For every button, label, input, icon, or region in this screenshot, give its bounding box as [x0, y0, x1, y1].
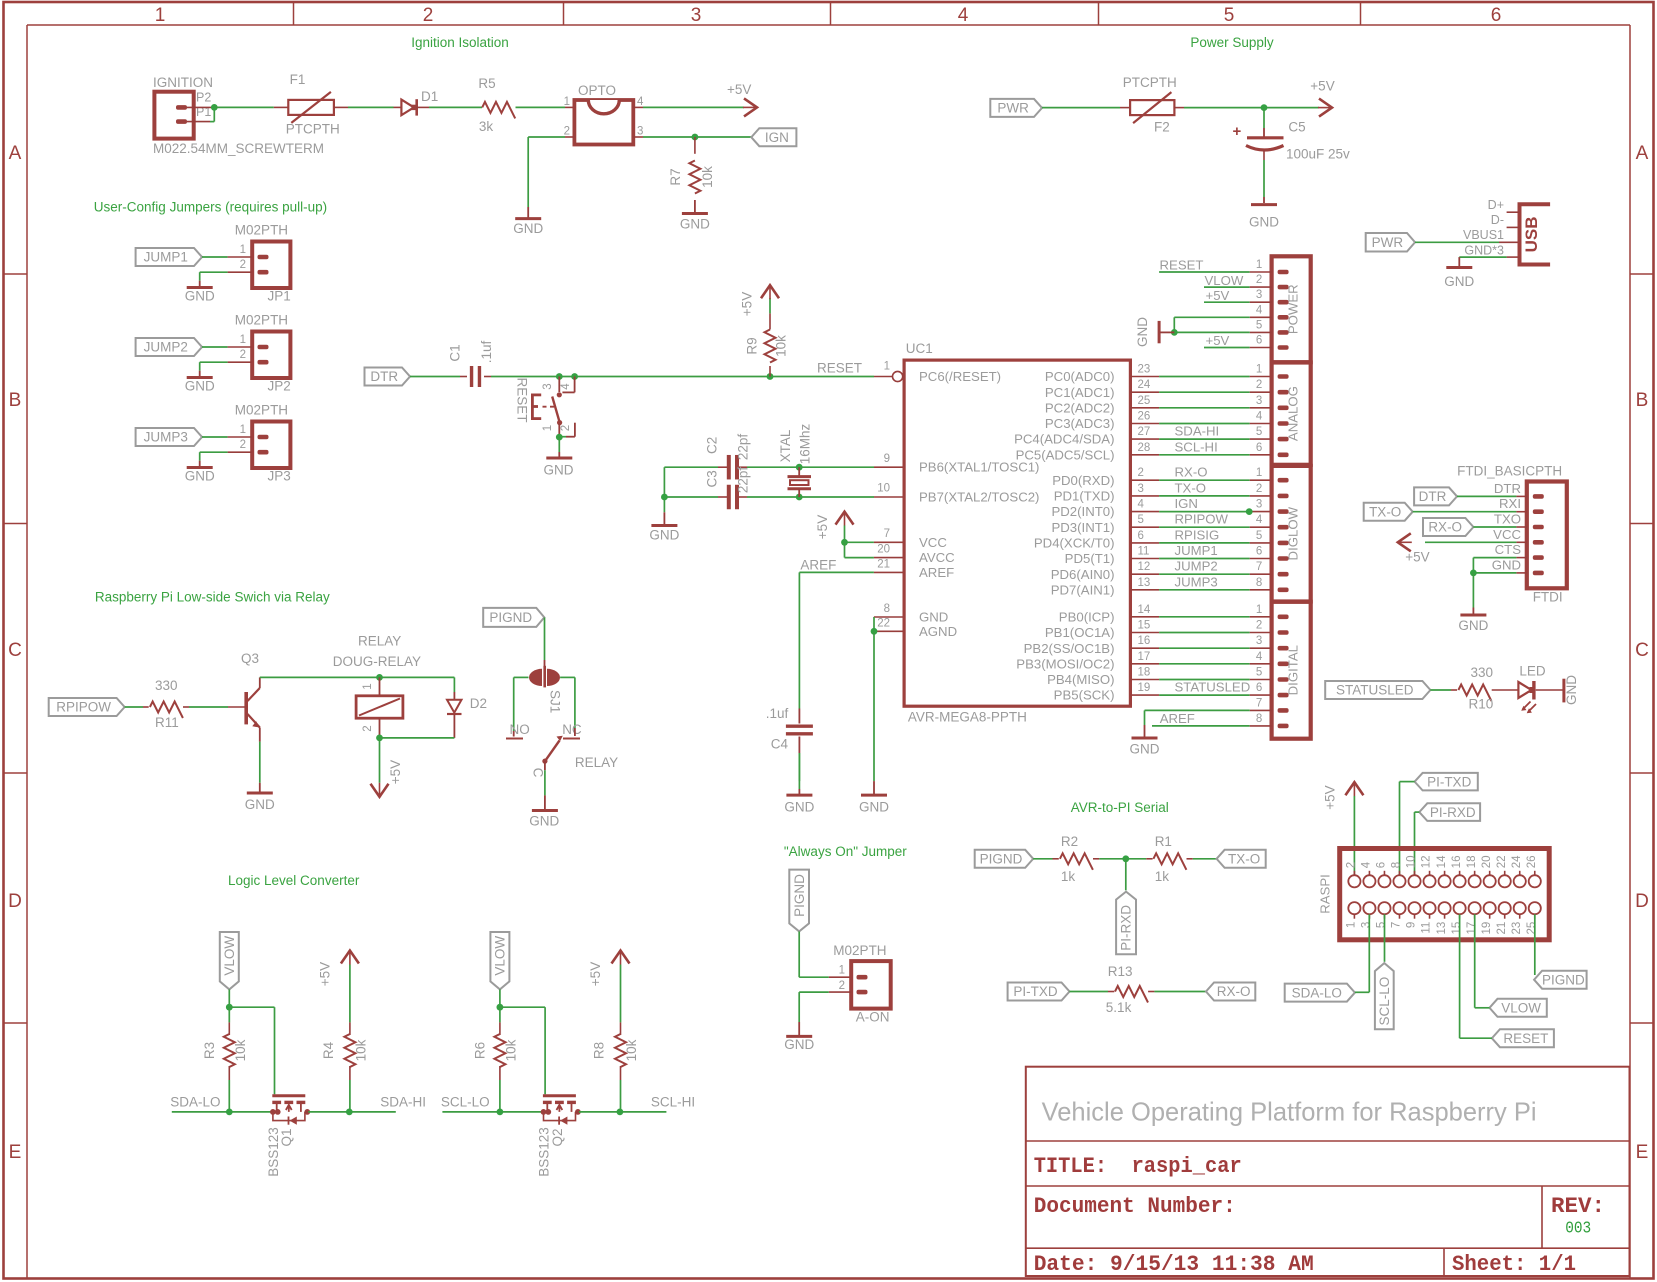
- svg-text:7: 7: [1256, 561, 1262, 573]
- svg-text:2: 2: [560, 425, 572, 431]
- power +5V arrow (raspi): [1323, 782, 1364, 810]
- net stub +5V to POWER 3: [1204, 288, 1272, 303]
- title block heading text: [1042, 1097, 1537, 1127]
- wire PB6 crystal net: [664, 466, 904, 468]
- net label PWR (power supply): [990, 99, 1042, 117]
- LED: [1518, 664, 1562, 714]
- svg-text:REV:: REV:: [1551, 1194, 1605, 1219]
- svg-text:RPIPOW: RPIPOW: [1175, 512, 1229, 527]
- svg-text:22pf: 22pf: [736, 434, 751, 461]
- wire STATUSLED to R10: [1430, 689, 1457, 691]
- svg-text:DTR: DTR: [1494, 481, 1521, 496]
- ground below AGND: [859, 795, 889, 814]
- svg-text:Logic Level Converter: Logic Level Converter: [228, 873, 360, 888]
- RASPI pin 18: [1466, 856, 1481, 888]
- svg-text:GND: GND: [784, 1037, 814, 1052]
- ground below Q3: [245, 793, 275, 812]
- net label RESET (wire): [817, 361, 862, 376]
- svg-text:Vehicle Operating Platform for: Vehicle Operating Platform for Raspberry…: [1042, 1097, 1537, 1127]
- capacitor C2 22pf: [704, 434, 750, 480]
- relay switch arm: [531, 728, 619, 778]
- svg-text:GND: GND: [859, 800, 889, 815]
- ground below switch: [544, 458, 574, 478]
- svg-text:JUMP2: JUMP2: [1175, 559, 1218, 574]
- junction node VCC: [841, 539, 848, 546]
- svg-text:13: 13: [1138, 577, 1151, 589]
- relay contact NO: [506, 722, 530, 739]
- svg-text:AVR-to-PI Serial: AVR-to-PI Serial: [1071, 800, 1169, 815]
- svg-text:VLOW: VLOW: [1205, 273, 1244, 288]
- transistor Q3: [241, 651, 260, 742]
- RASPI pin 7: [1391, 902, 1406, 928]
- RASPI pin 20: [1481, 856, 1496, 888]
- pin PB1(OC1A) 15 wire to DIGITAL 2: [1045, 620, 1272, 641]
- svg-text:A: A: [9, 143, 22, 164]
- wire JP1 pin2 to GND: [200, 272, 253, 287]
- wire PI-TXD to R13: [1070, 991, 1115, 993]
- svg-text:17: 17: [1466, 922, 1478, 935]
- RASPI pin 1: [1346, 902, 1361, 928]
- connector A-ON (M02PTH): [833, 943, 890, 1025]
- svg-text:PB0(ICP): PB0(ICP): [1059, 609, 1115, 624]
- diode D2: [447, 696, 487, 738]
- svg-text:R3: R3: [202, 1042, 217, 1059]
- wire FTDI GND down: [1472, 573, 1474, 614]
- svg-text:5: 5: [1256, 319, 1262, 331]
- svg-text:F2: F2: [1154, 120, 1170, 135]
- title block revision value: [1565, 1220, 1591, 1239]
- svg-text:19: 19: [1138, 682, 1151, 694]
- frame row ticks left and right: [4, 274, 1654, 1023]
- RASPI pin 19: [1481, 902, 1496, 934]
- svg-text:.1uf: .1uf: [766, 706, 789, 721]
- svg-text:PI-TXD: PI-TXD: [1427, 774, 1472, 789]
- junction node POWER GND: [1171, 329, 1178, 336]
- svg-text:5: 5: [1256, 530, 1262, 542]
- svg-text:P2: P2: [196, 91, 211, 105]
- wire VLOW to R3: [228, 989, 230, 1007]
- svg-text:4: 4: [1138, 499, 1145, 511]
- svg-text:21: 21: [877, 559, 890, 571]
- svg-text:PIGND: PIGND: [792, 874, 807, 917]
- pin PB3(MOSI/OC2) 17 wire to DIGITAL 4: [1016, 651, 1271, 672]
- net label PIGND (always-on): [789, 870, 809, 932]
- wire +5V to AVCC pin20: [845, 542, 905, 557]
- svg-text:GND: GND: [1249, 215, 1279, 230]
- svg-text:Ignition Isolation: Ignition Isolation: [411, 35, 509, 50]
- svg-text:M02PTH: M02PTH: [833, 943, 886, 958]
- RASPI pin 8: [1391, 862, 1406, 888]
- wire JP2 pin2 to GND: [200, 362, 253, 377]
- svg-text:SCL-HI: SCL-HI: [1175, 439, 1218, 454]
- wire SJ1 right pad to NC: [560, 677, 575, 728]
- svg-text:4: 4: [1256, 514, 1263, 526]
- wire +5V to VCC pin7: [845, 526, 905, 543]
- wire OPTO pin4 to +5V: [633, 106, 744, 108]
- junction node SCL-LO: [497, 1109, 504, 1116]
- svg-text:+5V: +5V: [740, 292, 755, 316]
- svg-text:25: 25: [1526, 922, 1538, 935]
- wire PI-RXD to RASPI pin10: [1415, 812, 1420, 875]
- svg-text:VLOW: VLOW: [493, 936, 508, 976]
- wire Q3 collector to relay coil: [260, 676, 455, 678]
- svg-text:2: 2: [1346, 862, 1358, 868]
- svg-text:20: 20: [877, 544, 890, 556]
- svg-text:FTDI_BASICPTH: FTDI_BASICPTH: [1457, 464, 1562, 479]
- RASPI pin 5: [1376, 902, 1391, 928]
- svg-text:GND: GND: [185, 288, 215, 303]
- svg-text:3: 3: [1256, 635, 1262, 647]
- pin AREF 21: [877, 559, 954, 580]
- svg-text:+5V: +5V: [588, 962, 603, 986]
- svg-text:+5V: +5V: [1323, 785, 1338, 809]
- svg-text:330: 330: [1471, 665, 1494, 680]
- capacitor C1 .1uf: [448, 340, 495, 387]
- svg-text:B: B: [9, 390, 22, 411]
- title block TITLE row: [1034, 1154, 1242, 1179]
- svg-text:16Mhz: 16Mhz: [798, 423, 813, 464]
- svg-text:GND: GND: [185, 468, 215, 483]
- svg-text:GND: GND: [245, 797, 275, 812]
- wire JUMP2 to JP2 pin1: [202, 346, 252, 348]
- svg-text:R1: R1: [1155, 834, 1172, 849]
- title block date row: [1034, 1252, 1576, 1277]
- RASPI pin 15: [1451, 902, 1466, 934]
- wire FTDI GND pin: [1473, 572, 1526, 574]
- net label TX-O (ftdi): [1364, 503, 1413, 521]
- svg-text:A-ON: A-ON: [856, 1010, 890, 1025]
- wire C1 to RESET net: [491, 376, 892, 378]
- svg-text:SJ1: SJ1: [548, 690, 563, 713]
- svg-text:1: 1: [155, 5, 166, 26]
- section title: Power Supply: [1190, 35, 1274, 50]
- resistor R11 330: [150, 678, 189, 730]
- svg-text:16: 16: [1138, 635, 1151, 647]
- section title: AVR-to-PI Serial: [1071, 800, 1169, 815]
- svg-text:GND: GND: [529, 814, 559, 829]
- junction node IGN DIGLOW: [1246, 508, 1253, 515]
- net label PI-TXD (serial): [1008, 983, 1070, 1001]
- svg-text:GND: GND: [649, 528, 679, 543]
- wire R1 to TX-O: [1193, 858, 1217, 860]
- svg-text:8: 8: [884, 603, 890, 615]
- svg-text:Q2: Q2: [550, 1128, 565, 1146]
- svg-text:+5V: +5V: [1206, 288, 1230, 303]
- power +5V arrow (VCC): [815, 512, 854, 540]
- wire F2 to +5V: [1184, 107, 1319, 109]
- title block border: [1026, 1067, 1630, 1276]
- svg-text:JUMP1: JUMP1: [1175, 543, 1218, 558]
- svg-text:RASPI: RASPI: [1317, 874, 1332, 914]
- connector FTDI_BASICPTH: [1457, 464, 1567, 605]
- resistor R10 330: [1458, 665, 1518, 711]
- svg-text:DTR: DTR: [1419, 489, 1447, 504]
- svg-text:RX-O: RX-O: [1217, 984, 1251, 999]
- pin PB7 10: [877, 483, 1039, 505]
- svg-text:1: 1: [1256, 364, 1262, 376]
- svg-text:JP2: JP2: [268, 378, 291, 393]
- resistor R6 10k: [472, 1007, 518, 1112]
- svg-text:E: E: [1636, 1142, 1649, 1163]
- pin PD3(INT1) 5 wire to DIGLOW 4: [1051, 512, 1271, 535]
- RASPI pin 11: [1421, 902, 1436, 934]
- svg-text:18: 18: [1466, 856, 1478, 869]
- svg-text:C1: C1: [448, 344, 463, 361]
- pin PB6 9: [884, 453, 1040, 475]
- svg-text:2: 2: [1256, 483, 1262, 495]
- svg-text:SCL-LO: SCL-LO: [1377, 977, 1392, 1026]
- svg-text:JUMP2: JUMP2: [144, 340, 188, 355]
- svg-text:22: 22: [877, 618, 890, 630]
- net label JUMP1: [136, 248, 202, 266]
- net label RESET (raspi): [1492, 1029, 1554, 1047]
- pin PB4(MISO) 18 wire to DIGITAL 5: [1047, 667, 1272, 688]
- svg-text:8: 8: [1256, 577, 1262, 589]
- junction node AGND: [871, 628, 878, 635]
- wire POWER 4 to GND: [1174, 317, 1271, 332]
- svg-text:PC0(ADC0): PC0(ADC0): [1045, 369, 1115, 384]
- wire FTDI CTS to GND net: [1473, 558, 1526, 573]
- net label SDA-LO (raspi): [1285, 984, 1355, 1002]
- svg-text:4: 4: [637, 96, 644, 108]
- pin PD7(AIN1) 13 wire to DIGLOW 8: [1051, 574, 1272, 597]
- ground LED (rotated): [1564, 675, 1579, 705]
- svg-text:7: 7: [1256, 697, 1262, 709]
- wire SCL-LO row: [442, 1111, 546, 1113]
- RASPI pin 17: [1466, 902, 1481, 934]
- pin PC1(ADC1) 24 wire to ANALOG 2: [1045, 379, 1272, 400]
- svg-text:3: 3: [637, 126, 643, 138]
- svg-text:1: 1: [839, 965, 845, 977]
- junction node FTDI GND: [1470, 570, 1477, 577]
- svg-text:PTCPTH: PTCPTH: [286, 122, 340, 137]
- svg-text:Raspberry Pi Low-side Swich vi: Raspberry Pi Low-side Swich via Relay: [95, 589, 330, 604]
- net label SCL-HI: [651, 1094, 695, 1109]
- wire PIGND to A-ON pin1: [799, 932, 851, 978]
- svg-text:TX-O: TX-O: [1228, 852, 1260, 867]
- svg-text:IGN: IGN: [765, 130, 789, 145]
- frame column ticks top: [294, 2, 1361, 25]
- connector DIGITAL: [1256, 602, 1311, 739]
- svg-text:C: C: [8, 640, 22, 661]
- svg-text:R4: R4: [321, 1041, 336, 1059]
- svg-text:+: +: [1233, 123, 1242, 140]
- svg-text:C5: C5: [1288, 120, 1305, 135]
- svg-text:2: 2: [240, 349, 246, 361]
- svg-text:6: 6: [1138, 530, 1144, 542]
- pin VCC 7: [884, 528, 948, 550]
- ground below R7: [680, 214, 710, 232]
- pin AVCC 20: [877, 544, 955, 566]
- wire PIGND to RASPI pin25: [1534, 914, 1536, 975]
- ground below USB: [1444, 268, 1474, 289]
- svg-text:.1uf: .1uf: [479, 340, 494, 363]
- svg-text:TX-O: TX-O: [1175, 480, 1207, 495]
- svg-text:+5V: +5V: [1310, 79, 1334, 94]
- power +5V arrow (R4): [317, 951, 359, 987]
- svg-text:TXO: TXO: [1494, 512, 1521, 527]
- RASPI pin 24: [1511, 855, 1526, 887]
- svg-text:27: 27: [1138, 426, 1151, 438]
- wire JUMP1 to JP1 pin1: [202, 256, 252, 258]
- svg-text:RX-O: RX-O: [1175, 465, 1208, 480]
- svg-text:6: 6: [1256, 335, 1262, 347]
- svg-text:VCC: VCC: [1493, 527, 1521, 542]
- pin PC6(/RESET) 1: [884, 361, 1001, 385]
- svg-text:PC5(ADC5/SCL): PC5(ADC5/SCL): [1016, 447, 1115, 462]
- resistor R13 5.1k: [1106, 964, 1155, 1015]
- svg-text:10k: 10k: [624, 1039, 639, 1061]
- junction node C3 left: [661, 494, 668, 501]
- net label DTR (ftdi): [1414, 487, 1457, 505]
- svg-text:4: 4: [1256, 304, 1263, 316]
- svg-text:PC6(/RESET): PC6(/RESET): [919, 369, 1001, 384]
- resistor R5 3k: [478, 76, 515, 134]
- svg-text:R6: R6: [472, 1042, 487, 1059]
- svg-text:+5V: +5V: [1405, 550, 1429, 565]
- svg-text:1: 1: [1256, 259, 1262, 271]
- svg-text:19: 19: [1481, 922, 1493, 935]
- capacitor C4 .1uf: [766, 706, 813, 781]
- svg-text:Document Number:: Document Number:: [1034, 1194, 1236, 1219]
- ground below JP1: [185, 288, 215, 304]
- resistor R1 1k: [1146, 834, 1193, 884]
- svg-text:+5V: +5V: [317, 962, 332, 986]
- net label RX-O (serial): [1206, 983, 1255, 1001]
- svg-text:PB7(XTAL2/TOSC2): PB7(XTAL2/TOSC2): [919, 490, 1039, 505]
- svg-text:6: 6: [1491, 5, 1502, 26]
- RASPI pin 4: [1361, 861, 1376, 887]
- svg-text:23: 23: [1511, 922, 1523, 935]
- RASPI pin 25: [1526, 902, 1541, 934]
- svg-text:+5V: +5V: [815, 515, 830, 539]
- net label SCL-LO (raspi): [1375, 963, 1394, 1029]
- wire F1 to D1: [348, 106, 394, 108]
- svg-text:AREF: AREF: [919, 565, 954, 580]
- svg-text:8: 8: [1256, 713, 1262, 725]
- svg-text:VLOW: VLOW: [1501, 1001, 1541, 1016]
- svg-text:2: 2: [362, 725, 374, 731]
- svg-text:100uF 25v: 100uF 25v: [1286, 146, 1350, 161]
- svg-text:11: 11: [1421, 922, 1433, 934]
- svg-text:330: 330: [155, 678, 178, 693]
- svg-text:PD5(T1): PD5(T1): [1065, 551, 1115, 566]
- svg-text:GND: GND: [1458, 618, 1488, 633]
- svg-text:14: 14: [1436, 855, 1448, 868]
- net stub +5V to POWER 6: [1204, 333, 1272, 348]
- section title: User-Config Jumpers: [94, 199, 327, 214]
- svg-text:PIGND: PIGND: [1542, 972, 1585, 987]
- svg-text:PB3(MOSI/OC2): PB3(MOSI/OC2): [1016, 656, 1114, 671]
- RASPI pin 23: [1511, 902, 1526, 934]
- svg-text:GND: GND: [919, 610, 948, 625]
- svg-text:RPIPOW: RPIPOW: [56, 700, 111, 715]
- junction node coil top: [376, 674, 383, 681]
- net label VLOW (Q2): [490, 932, 509, 989]
- junction node SCL-HI: [617, 1109, 624, 1116]
- RASPI pin 22: [1496, 856, 1511, 888]
- svg-text:23: 23: [1138, 364, 1151, 376]
- section title: Always On Jumper: [784, 844, 907, 859]
- svg-text:JUMP3: JUMP3: [144, 430, 188, 445]
- net label RPIPOW: [49, 698, 125, 716]
- svg-text:24: 24: [1511, 855, 1523, 868]
- frame column numbers: [155, 5, 1502, 26]
- wire JP3 pin2 to GND: [200, 452, 253, 467]
- svg-text:RESET: RESET: [1503, 1031, 1548, 1046]
- svg-text:1: 1: [564, 96, 570, 108]
- power +5V arrow down (relay): [371, 760, 403, 797]
- svg-text:CTS: CTS: [1495, 542, 1522, 557]
- svg-text:PD3(INT1): PD3(INT1): [1051, 520, 1114, 535]
- svg-text:PD4(XCK/T0): PD4(XCK/T0): [1034, 536, 1115, 551]
- svg-text:5: 5: [1256, 667, 1262, 679]
- resistor R2 1k: [1060, 834, 1099, 884]
- svg-text:R8: R8: [592, 1042, 607, 1059]
- capacitor C3 22pf: [704, 467, 750, 510]
- svg-text:GND: GND: [784, 800, 814, 815]
- pin PC2(ADC2) 25 wire to ANALOG 3: [1045, 395, 1272, 416]
- resistor R7 10k: [668, 137, 715, 213]
- svg-text:SCL-HI: SCL-HI: [651, 1094, 695, 1109]
- svg-text:12: 12: [1421, 856, 1433, 869]
- pin PC4(ADC4/SDA) 27 wire to ANALOG 5: [1014, 424, 1272, 447]
- wire JUMP3 to JP3 pin1: [202, 436, 252, 438]
- svg-text:GND: GND: [185, 378, 215, 393]
- svg-text:PWR: PWR: [1372, 235, 1404, 250]
- svg-text:9: 9: [884, 453, 890, 465]
- junction node ignition: [211, 104, 218, 111]
- svg-text:User-Config Jumpers (requires: User-Config Jumpers (requires pull-up): [94, 199, 327, 214]
- diode D1: [394, 89, 439, 116]
- wire TX-O to FTDI RXI: [1413, 511, 1527, 513]
- wire C2 C3 left leg to GND: [663, 467, 665, 524]
- svg-text:C2: C2: [704, 437, 719, 454]
- svg-text:C: C: [1635, 640, 1649, 661]
- RASPI pin 13: [1436, 902, 1451, 934]
- svg-text:D: D: [1635, 891, 1649, 912]
- svg-text:6: 6: [1256, 546, 1262, 558]
- svg-text:10k: 10k: [774, 335, 789, 357]
- connector USB: [1463, 198, 1550, 265]
- solder jumper SJ1: [529, 666, 563, 714]
- power +5V arrow (supply): [1310, 79, 1334, 117]
- net label STATUSLED: [1325, 681, 1430, 699]
- resistor R3 10k: [202, 1007, 248, 1112]
- net label VLOW (Q1): [220, 932, 239, 989]
- svg-text:1: 1: [1256, 604, 1262, 616]
- svg-text:GND: GND: [544, 463, 574, 478]
- net label SCL-LO: [441, 1094, 490, 1109]
- svg-text:JP3: JP3: [268, 468, 291, 483]
- net label PI-TXD (raspi): [1415, 773, 1478, 791]
- svg-text:SDA-HI: SDA-HI: [1175, 424, 1220, 439]
- svg-text:2: 2: [839, 980, 845, 992]
- wire VLOW to RASPI pin17: [1475, 914, 1490, 1008]
- connector ANALOG: [1256, 363, 1311, 465]
- power +5V arrow (R9): [740, 285, 780, 316]
- svg-text:5: 5: [1256, 426, 1262, 438]
- svg-text:JP1: JP1: [268, 288, 291, 303]
- power +5V arrow (opto): [727, 82, 757, 116]
- fuse F1 PTCPTH: [274, 72, 348, 137]
- svg-text:PC1(ADC1): PC1(ADC1): [1045, 385, 1115, 400]
- svg-text:DTR: DTR: [370, 369, 398, 384]
- pin PC3(ADC3) 26 wire to ANALOG 4: [1045, 411, 1272, 432]
- svg-text:28: 28: [1138, 442, 1151, 454]
- svg-text:POWER: POWER: [1286, 284, 1301, 334]
- net label PI-RXD (serial): [1116, 892, 1136, 955]
